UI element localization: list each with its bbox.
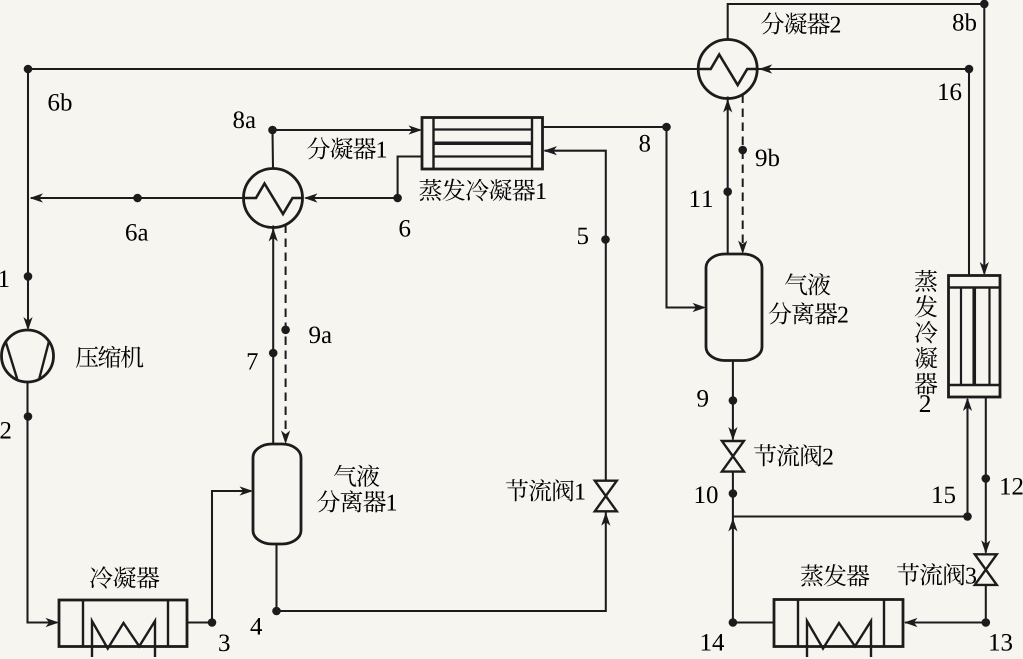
state point label 9a <box>309 327 320 344</box>
node 9 <box>729 396 738 405</box>
label 分凝器2 <box>761 12 784 34</box>
label 气液 of 分离器2 <box>785 273 807 295</box>
evaporative condenser 蒸发冷凝器1 <box>422 118 543 170</box>
arrow into 分凝器2 right side <box>759 64 773 73</box>
state point label 8b <box>953 14 964 31</box>
arrow up into 分凝器2 bottom <box>723 99 732 113</box>
label 节流阀2 <box>754 444 776 466</box>
node 8 <box>662 123 671 132</box>
state point label 15 <box>933 487 942 504</box>
wire 9b dashed liquid return <box>742 95 744 252</box>
node 14 <box>729 618 738 627</box>
label 蒸发器 <box>801 564 823 586</box>
wire 8a from node to 蒸发冷凝器1 <box>273 130 421 169</box>
node 12 <box>982 474 991 483</box>
arrow 8a into 蒸发冷凝器1 left <box>409 125 423 134</box>
node 4 <box>272 607 281 616</box>
state point label 1 <box>0 271 9 288</box>
state point label 4 <box>251 618 263 635</box>
arrow into 节流阀2 top <box>728 427 737 441</box>
wire 分凝器2 gas riser (11) <box>727 97 729 255</box>
node 6 <box>393 194 402 203</box>
wire 节流阀1 up to 蒸发冷凝器1 right (5) <box>545 151 606 481</box>
node 7 <box>269 349 278 358</box>
node 6a <box>133 194 142 203</box>
throttle valve 节流阀3 symbol <box>975 554 997 585</box>
arrow into condenser left <box>46 618 60 627</box>
arrow 6a into left rail <box>30 193 44 202</box>
state point label 9 <box>697 390 708 407</box>
label 蒸发冷凝器1 <box>419 179 441 201</box>
node 16 <box>965 65 974 74</box>
wire 气液分离器1 bottom to node4 rail to 节流阀1 <box>277 511 606 611</box>
label 蒸发冷凝器2 vertical <box>915 270 937 292</box>
state point label 2 <box>1 422 11 439</box>
wire 气液分离器2 bottom to 节流阀2 (9) <box>732 361 734 440</box>
condenser 冷凝器 symbol <box>59 600 187 647</box>
arrow up into 蒸发冷凝器2 bottom <box>963 398 972 412</box>
wire 8b down-comer to 蒸发冷凝器2 top <box>983 4 985 274</box>
wire 分凝器2 top riser and 8b header <box>728 4 985 40</box>
wire top header 6b to 分凝器2 left <box>28 68 698 70</box>
label 节流阀1 <box>506 479 528 501</box>
wire 蒸发冷凝器1 out to node 8 and down to 气液分离器2 <box>543 127 705 308</box>
partial condenser 分凝器1 symbol <box>244 169 303 228</box>
arrow up into 节流阀1 bottom <box>601 512 610 526</box>
node 10 <box>729 489 738 498</box>
state point label 6b <box>49 94 60 111</box>
node 2 <box>24 412 33 421</box>
wire 分凝器2 right to node 16 <box>757 68 969 70</box>
arrow into 节流阀3 top <box>981 540 990 554</box>
wire 6a from 分凝器1 left to rail <box>31 197 244 199</box>
throttle valve 节流阀1 symbol <box>595 481 617 512</box>
arrow into 蒸发冷凝器2 top <box>980 262 989 276</box>
arrow up into rail junction <box>728 518 737 532</box>
state point label 11 <box>691 191 700 208</box>
arrow up into 分凝器1 bottom <box>269 228 278 242</box>
wire node14 riser <box>732 517 734 623</box>
label 分离器1 <box>317 490 340 512</box>
node 3 <box>208 618 217 627</box>
wire left rail 6b down to compressor <box>27 69 29 328</box>
state point label 6 <box>400 220 411 237</box>
node 5 <box>601 235 610 244</box>
label 气液 of 分离器1 <box>334 465 356 487</box>
label 分凝器1 <box>307 137 330 159</box>
arrow into 气液分离器1 left side <box>240 486 254 495</box>
wire 蒸发冷凝器2 to node12 to 节流阀3 <box>985 397 987 553</box>
arrow node6 line into 分凝器1 right <box>304 193 318 202</box>
wire 节流阀3 to node13 to evaporator <box>905 585 986 623</box>
wire 15 riser to 蒸发冷凝器2 bottom <box>966 399 968 517</box>
arrow into 蒸发冷凝器1 right <box>544 146 558 155</box>
label 压缩机 <box>76 347 98 368</box>
evaporator 蒸发器 symbol <box>774 600 903 647</box>
node 9b <box>738 146 747 155</box>
state point label 14 <box>702 634 711 651</box>
state point label 5 <box>578 228 588 245</box>
arrow into 气液分离器2 left side <box>693 303 707 312</box>
wire rail 10-15 <box>733 515 968 517</box>
state point label 16 <box>939 84 948 101</box>
arrow into compressor top <box>23 317 32 331</box>
node 8a <box>268 126 277 135</box>
node 6b <box>24 65 33 74</box>
partial condenser 分凝器2 symbol <box>698 40 757 99</box>
wire 分凝器1 gas riser (7) <box>272 226 274 445</box>
wire evaporator out to node14 <box>733 621 774 623</box>
separator vessel 气液分离器2 <box>706 254 762 361</box>
evaporative condenser 蒸发冷凝器2 <box>949 276 1001 398</box>
node 9a <box>281 326 290 335</box>
wire 节流阀2 to node10 to rail <box>732 472 734 517</box>
arrow 9b into 气液分离器2 top <box>738 241 747 255</box>
separator vessel 气液分离器1 <box>253 444 301 544</box>
node 15 <box>963 512 972 521</box>
state point label 10 <box>696 487 705 504</box>
node 1 <box>24 272 33 281</box>
throttle valve 节流阀2 symbol <box>722 441 744 472</box>
arrow into evaporator right <box>904 618 918 627</box>
node 8b corner <box>980 0 989 8</box>
node 13 <box>982 618 991 627</box>
state point label 12 <box>1001 478 1010 495</box>
state point label 3 <box>219 635 229 652</box>
arrow 9a into 气液分离器1 top <box>281 431 290 445</box>
wire node16 down to 蒸发冷凝器2 top <box>968 69 970 276</box>
wire 9a dashed liquid return <box>285 225 287 442</box>
label 分离器2 <box>769 302 792 324</box>
state point label 8 <box>640 135 651 152</box>
state point label 8a <box>234 111 245 128</box>
label 2 of 蒸发冷凝器2 <box>920 395 930 412</box>
label 节流阀3 <box>897 563 919 585</box>
state point label 9b <box>756 150 767 167</box>
node 11 <box>723 187 732 196</box>
state point label 13 <box>990 634 999 651</box>
state point label 7 <box>248 353 258 369</box>
wire 蒸发冷凝器1 bottom-left out to node 6 <box>306 157 423 199</box>
wire condenser to node3 and up to 气液分离器1 <box>187 491 251 623</box>
compressor 压缩机 <box>2 330 54 382</box>
wire compressor out down to condenser <box>28 382 58 623</box>
state point label 6a <box>126 224 137 241</box>
label 冷凝器 <box>90 566 113 588</box>
